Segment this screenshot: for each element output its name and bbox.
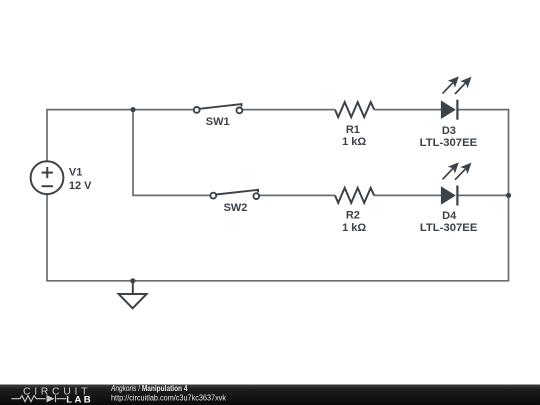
svg-text:LTL-307EE: LTL-307EE <box>420 222 478 234</box>
svg-text:1 kΩ: 1 kΩ <box>342 136 366 148</box>
svg-text:R2: R2 <box>346 210 360 222</box>
svg-text:LAB: LAB <box>66 394 90 405</box>
svg-text:12 V: 12 V <box>69 180 92 192</box>
svg-text:D4: D4 <box>442 210 457 222</box>
svg-text:SW2: SW2 <box>224 202 248 214</box>
svg-text:LTL-307EE: LTL-307EE <box>420 137 478 149</box>
svg-text:http://circuitlab.com/c3u7kc36: http://circuitlab.com/c3u7kc3637xvk <box>111 394 227 403</box>
svg-text:R1: R1 <box>346 124 360 136</box>
svg-text:SW1: SW1 <box>206 116 230 128</box>
svg-text:V1: V1 <box>69 167 82 179</box>
svg-text:Angkoris / Manipulation 4: Angkoris / Manipulation 4 <box>110 384 188 393</box>
svg-text:1 kΩ: 1 kΩ <box>342 222 366 234</box>
svg-text:D3: D3 <box>442 125 456 137</box>
